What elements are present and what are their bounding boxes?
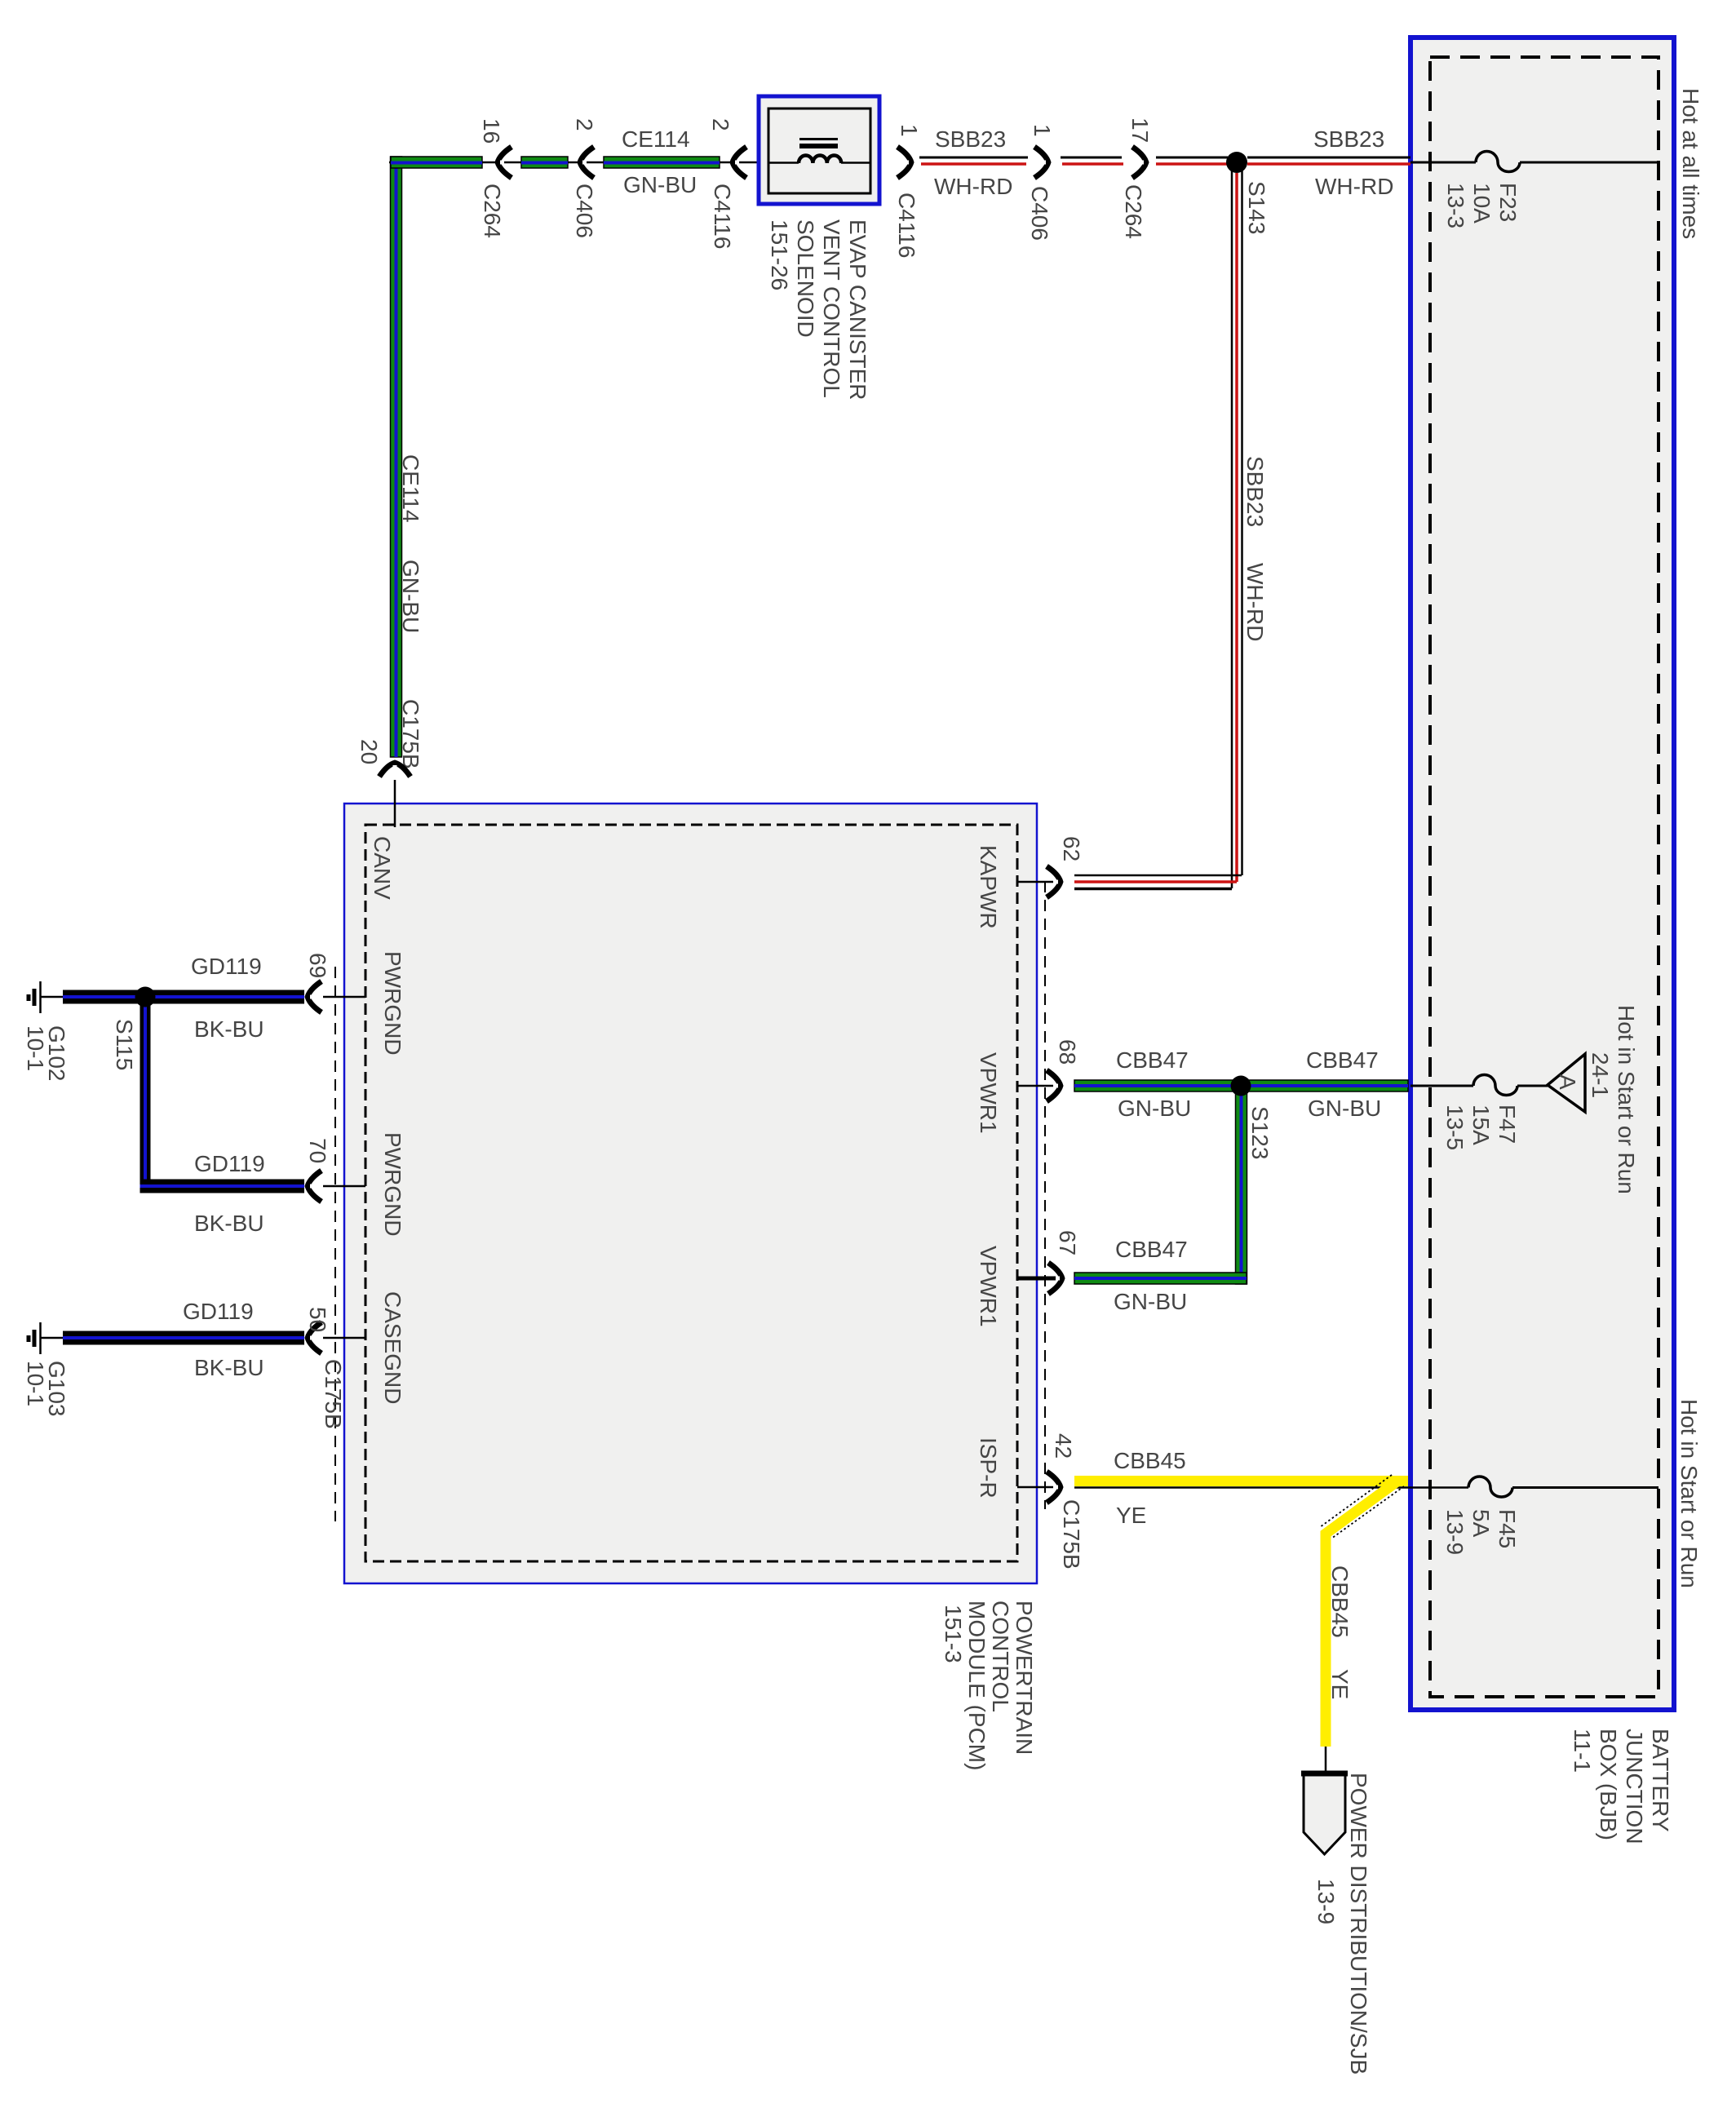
svg-text:SBB23: SBB23 bbox=[935, 126, 1006, 152]
wire CE114 GN-BU horizontal segment 2a bbox=[521, 157, 568, 168]
connector C4116 arrow pin 1 (right of solenoid) bbox=[897, 147, 911, 178]
svg-text:F47: F47 bbox=[1495, 1105, 1520, 1144]
svg-text:BOX (BJB): BOX (BJB) bbox=[1596, 1729, 1621, 1840]
svg-text:C4116: C4116 bbox=[894, 193, 919, 258]
svg-text:2: 2 bbox=[572, 118, 597, 131]
wire SBB23 WH-RD vertical from S143 down bbox=[1232, 162, 1242, 888]
svg-text:16: 16 bbox=[479, 118, 504, 144]
svg-text:Hot in Start or Run: Hot in Start or Run bbox=[1614, 1005, 1639, 1194]
svg-text:50: 50 bbox=[305, 1307, 330, 1332]
svg-text:C175B: C175B bbox=[1059, 1499, 1084, 1570]
pin 50 CASEGND bbox=[323, 1337, 365, 1339]
wire GD119 BK-BU row 50 bbox=[63, 1331, 304, 1345]
ground G102 bbox=[29, 981, 63, 1013]
wire top row thin line under components bbox=[389, 162, 770, 164]
splice S143 bbox=[1226, 152, 1247, 173]
svg-text:13-9: 13-9 bbox=[1313, 1879, 1339, 1924]
svg-text:GN-BU: GN-BU bbox=[1118, 1096, 1191, 1121]
svg-text:1: 1 bbox=[897, 124, 922, 137]
fuse F23 bbox=[1476, 152, 1520, 172]
svg-text:CANV: CANV bbox=[370, 836, 395, 900]
svg-text:PWRGND: PWRGND bbox=[380, 951, 405, 1056]
triangle connector A bbox=[1548, 1054, 1585, 1112]
svg-text:11-1: 11-1 bbox=[1570, 1729, 1595, 1773]
svg-text:C175B: C175B bbox=[398, 699, 423, 769]
svg-text:10-1: 10-1 bbox=[23, 1025, 48, 1071]
svg-text:BK-BU: BK-BU bbox=[194, 1211, 264, 1236]
svg-text:CBB45: CBB45 bbox=[1114, 1448, 1186, 1473]
svg-text:SBB23: SBB23 bbox=[1242, 456, 1268, 527]
splice S115 bbox=[135, 987, 156, 1007]
svg-text:S115: S115 bbox=[112, 1019, 137, 1070]
pin 68 VPWR1 bbox=[1017, 1085, 1053, 1087]
wire stub to power distribution connector bbox=[1325, 1747, 1327, 1773]
svg-text:S123: S123 bbox=[1247, 1106, 1273, 1159]
svg-text:24-1: 24-1 bbox=[1588, 1052, 1613, 1098]
connector C406 arrow pin 1 bbox=[1034, 147, 1048, 178]
svg-text:WH-RD: WH-RD bbox=[1315, 174, 1393, 199]
svg-text:GN-BU: GN-BU bbox=[1308, 1096, 1381, 1121]
svg-text:C175B: C175B bbox=[321, 1359, 346, 1429]
svg-text:VPWR1: VPWR1 bbox=[976, 1052, 1001, 1134]
svg-text:69: 69 bbox=[305, 953, 330, 978]
svg-text:68: 68 bbox=[1055, 1039, 1080, 1065]
svg-text:10-1: 10-1 bbox=[23, 1361, 48, 1406]
svg-text:KAPWR: KAPWR bbox=[976, 845, 1001, 929]
svg-text:C406: C406 bbox=[572, 184, 597, 238]
svg-text:13-3: 13-3 bbox=[1443, 183, 1468, 228]
wire SBB23 WH-RD top segment 4 bbox=[1247, 157, 1410, 164]
svg-text:PWRGND: PWRGND bbox=[380, 1132, 405, 1237]
svg-text:MODULE (PCM): MODULE (PCM) bbox=[964, 1601, 990, 1770]
svg-text:C4116: C4116 bbox=[710, 184, 735, 249]
connector C4116 arrow pin 2 bbox=[733, 147, 746, 178]
pin 42 ISP-R bbox=[1017, 1486, 1053, 1489]
svg-text:BATTERY: BATTERY bbox=[1648, 1729, 1673, 1832]
wire SBB23 WH-RD top segment 3 bbox=[1156, 157, 1228, 164]
svg-text:Hot at all times: Hot at all times bbox=[1678, 88, 1703, 239]
power distribution connector symbol bbox=[1301, 1773, 1348, 1854]
connector C175B dashed line right of PCM bbox=[1044, 881, 1046, 1509]
svg-text:YE: YE bbox=[1327, 1669, 1353, 1699]
wire CBB47 GN-BU row 68 bbox=[1074, 1080, 1408, 1091]
svg-text:13-5: 13-5 bbox=[1442, 1105, 1468, 1150]
wire CE114 GN-BU horizontal segment 1 bbox=[391, 157, 482, 168]
svg-text:F23: F23 bbox=[1495, 183, 1521, 222]
svg-text:F45: F45 bbox=[1495, 1509, 1520, 1548]
svg-text:YE: YE bbox=[1116, 1503, 1146, 1528]
svg-text:62: 62 bbox=[1059, 836, 1084, 861]
svg-text:POWERTRAIN: POWERTRAIN bbox=[1012, 1601, 1037, 1755]
svg-text:A: A bbox=[1555, 1074, 1580, 1090]
wire CE114 GN-BU horizontal segment 3 bbox=[604, 157, 720, 168]
wire KAPWR horizontal WH-RD bbox=[1074, 875, 1242, 889]
wire CBB45 YE diagonal branch bbox=[1320, 1475, 1404, 1747]
svg-text:JUNCTION: JUNCTION bbox=[1622, 1729, 1647, 1844]
fuse F45 bbox=[1468, 1477, 1512, 1497]
svg-text:BK-BU: BK-BU bbox=[194, 1355, 264, 1380]
connector C406 arrow pin 2 bbox=[580, 147, 594, 178]
pin 62 KAPWR bbox=[1017, 881, 1053, 883]
svg-text:CE114: CE114 bbox=[622, 126, 690, 152]
splice S123 bbox=[1231, 1076, 1251, 1096]
connector C264 arrow pin 17 bbox=[1132, 147, 1146, 178]
pin 67 VPWR1 bbox=[1017, 1277, 1056, 1281]
connector C175B dashed line left of PCM bbox=[334, 967, 336, 1521]
svg-text:VPWR1: VPWR1 bbox=[976, 1246, 1001, 1327]
svg-text:GD119: GD119 bbox=[183, 1299, 254, 1324]
svg-text:S143: S143 bbox=[1244, 181, 1269, 234]
svg-text:151-3: 151-3 bbox=[941, 1605, 966, 1663]
wire inside BJB to fuse F47 bbox=[1410, 1085, 1473, 1087]
wire GD119 BK-BU row 70 bbox=[140, 1180, 305, 1193]
evap canister vent control solenoid 151-26 bbox=[759, 96, 879, 204]
svg-text:WH-RD: WH-RD bbox=[1242, 563, 1268, 641]
wire SBB23 WH-RD top segment 1 bbox=[919, 157, 1028, 164]
svg-text:C264: C264 bbox=[1121, 184, 1146, 239]
powertrain control module PCM outline bbox=[344, 804, 1037, 1583]
fuse F47 bbox=[1473, 1075, 1517, 1096]
wire GD119 BK-BU row 69 bbox=[63, 990, 304, 1004]
wire inside BJB to fuse F23 bbox=[1410, 162, 1476, 164]
svg-text:10A: 10A bbox=[1469, 183, 1495, 224]
pin 69 PWRGND bbox=[323, 996, 365, 998]
svg-text:CASEGND: CASEGND bbox=[380, 1291, 405, 1404]
svg-text:C406: C406 bbox=[1027, 186, 1052, 241]
svg-text:GD119: GD119 bbox=[191, 954, 262, 979]
svg-text:CBB47: CBB47 bbox=[1306, 1047, 1379, 1073]
svg-text:POWER DISTRIBUTION/SJB: POWER DISTRIBUTION/SJB bbox=[1346, 1773, 1371, 2074]
svg-text:1: 1 bbox=[1030, 124, 1055, 137]
svg-text:CBB47: CBB47 bbox=[1115, 1237, 1188, 1262]
ground G103 bbox=[29, 1322, 63, 1354]
connector C264 arrow pin 16 bbox=[498, 147, 511, 178]
svg-text:2: 2 bbox=[708, 118, 733, 131]
svg-text:GN-BU: GN-BU bbox=[623, 172, 697, 197]
wire SBB23 WH-RD top segment 2 bbox=[1061, 157, 1123, 164]
svg-text:WH-RD: WH-RD bbox=[934, 174, 1012, 199]
svg-text:20: 20 bbox=[356, 739, 382, 764]
svg-text:42: 42 bbox=[1051, 1433, 1076, 1459]
svg-text:SBB23: SBB23 bbox=[1313, 126, 1384, 152]
battery junction box BJB outline bbox=[1410, 38, 1674, 1710]
svg-text:CBB45: CBB45 bbox=[1327, 1565, 1353, 1638]
svg-text:13-9: 13-9 bbox=[1442, 1509, 1468, 1555]
svg-text:GN-BU: GN-BU bbox=[1114, 1289, 1187, 1314]
svg-text:17: 17 bbox=[1127, 117, 1153, 143]
svg-text:BK-BU: BK-BU bbox=[194, 1016, 264, 1042]
svg-text:CBB47: CBB47 bbox=[1116, 1047, 1189, 1073]
svg-text:67: 67 bbox=[1055, 1230, 1080, 1255]
svg-text:CONTROL: CONTROL bbox=[988, 1601, 1013, 1712]
wire CBB45 YE row 42 bbox=[1074, 1476, 1468, 1488]
svg-text:5A: 5A bbox=[1468, 1509, 1494, 1538]
svg-text:70: 70 bbox=[305, 1138, 330, 1163]
svg-text:GD119: GD119 bbox=[194, 1151, 265, 1176]
pin 70 PWRGND bbox=[323, 1185, 365, 1188]
svg-text:C264: C264 bbox=[480, 184, 505, 238]
wire CBB47 GN-BU vertical from S123 bbox=[1236, 1086, 1247, 1284]
svg-text:CE114: CE114 bbox=[398, 454, 423, 523]
svg-text:ISP-R: ISP-R bbox=[976, 1437, 1001, 1499]
wire CANV green vertical bbox=[391, 157, 402, 757]
svg-text:GN-BU: GN-BU bbox=[398, 560, 423, 633]
svg-text:15A: 15A bbox=[1468, 1105, 1494, 1145]
svg-text:Hot in Start or Run: Hot in Start or Run bbox=[1676, 1399, 1702, 1588]
wire GD119 BK-BU vertical from S115 bbox=[140, 997, 151, 1192]
wire CBB47 GN-BU row 67 bbox=[1074, 1273, 1247, 1284]
